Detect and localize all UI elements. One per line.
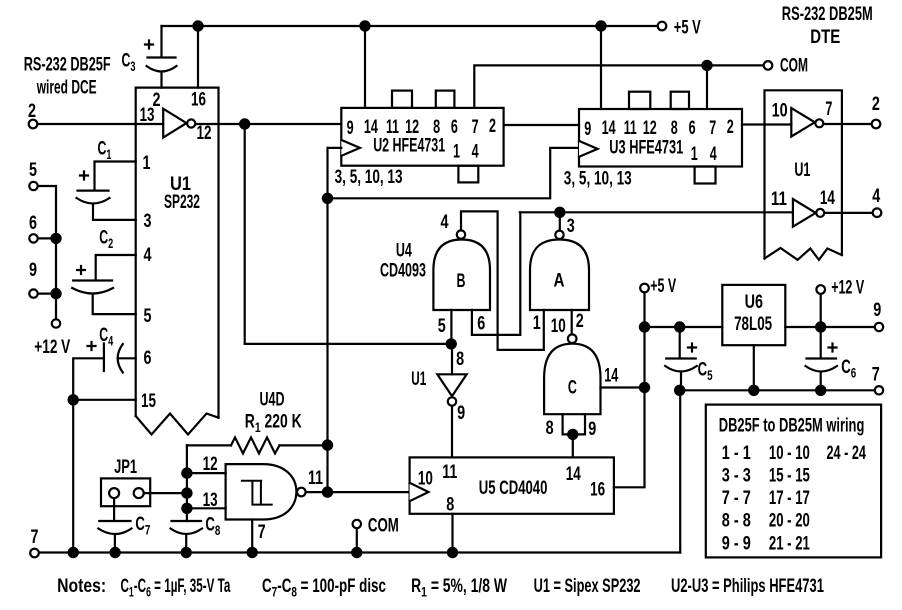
svg-text:9: 9 xyxy=(584,118,591,139)
capacitor C5 xyxy=(665,327,697,390)
wire terminal5 jog xyxy=(38,186,56,319)
svg-text:14: 14 xyxy=(604,365,618,386)
node junction out/feedback xyxy=(323,488,332,497)
op-amp U1 SP232 box (torn bottom) xyxy=(136,88,219,418)
svg-text:U1: U1 xyxy=(170,173,191,194)
svg-text:U4D: U4D xyxy=(260,389,285,410)
op-amp U1 inverter 11-14 xyxy=(793,199,816,227)
svg-text:7: 7 xyxy=(872,364,880,385)
svg-text:12: 12 xyxy=(197,123,212,144)
node junction C5 top xyxy=(675,322,684,331)
svg-text:16: 16 xyxy=(590,479,605,500)
wire U2 clock jog xyxy=(328,148,342,198)
node junction C3/pin16 riser xyxy=(193,21,202,30)
svg-text:C3: C3 xyxy=(122,51,136,74)
svg-text:7: 7 xyxy=(709,117,716,138)
capacitor C6 xyxy=(806,327,838,390)
svg-text:13: 13 xyxy=(203,490,218,511)
node junction +5V rail xyxy=(640,322,649,331)
svg-text:5: 5 xyxy=(144,305,152,326)
node terminal 6 xyxy=(29,234,37,242)
wire top +5V bus xyxy=(162,25,658,27)
op-amp U1 right box (torn bottom) xyxy=(765,90,842,258)
wire bottom ground bus xyxy=(40,551,680,553)
node +5V terminal top xyxy=(658,22,667,31)
wire inverter14 out to terminal 4 xyxy=(825,212,873,214)
svg-text:C7​-C8​ = 100-pF disc: C7​-C8​ = 100-pF disc xyxy=(262,576,386,600)
svg-text:14: 14 xyxy=(602,117,616,138)
node terminal 9 right xyxy=(875,323,883,331)
node terminal 7 bottom left xyxy=(30,549,39,558)
wire U6 gnd pin xyxy=(753,345,755,390)
wire U6 out to +12V/terminal9 xyxy=(785,326,874,328)
wire A output drop xyxy=(559,212,561,230)
jumper JP1 xyxy=(101,478,150,506)
node +5V terminal right xyxy=(640,284,649,293)
node terminal 5 xyxy=(29,182,37,190)
op-amp U1 inverter 10-7 xyxy=(791,108,815,136)
node terminal 4 right xyxy=(873,208,882,217)
wire R1 left drop xyxy=(186,445,188,521)
svg-text:SP232: SP232 xyxy=(164,192,200,212)
svg-text:RS-232 DB25F: RS-232 DB25F xyxy=(24,54,111,75)
svg-text:C8: C8 xyxy=(205,514,220,538)
node junction VDD/C14 xyxy=(640,383,649,392)
svg-text:6: 6 xyxy=(144,347,152,368)
svg-text:10: 10 xyxy=(551,316,566,337)
wire terminal9 stub xyxy=(38,293,56,295)
node junction U2 pin14 riser xyxy=(360,21,369,30)
svg-text:1: 1 xyxy=(533,312,541,333)
svg-text:8 - 8: 8 - 8 xyxy=(722,510,751,531)
svg-text:C1​-C6​ = 1µF, 35-V Ta: C1​-C6​ = 1µF, 35-V Ta xyxy=(121,576,231,600)
svg-text:16: 16 xyxy=(191,89,206,110)
node junction 3,5,10,13 bus xyxy=(323,194,332,203)
svg-text:C5: C5 xyxy=(698,359,713,383)
svg-text:17 - 17: 17 - 17 xyxy=(769,488,810,509)
svg-text:21 - 21: 21 - 21 xyxy=(769,533,810,554)
svg-text:3 - 3: 3 - 3 xyxy=(722,465,751,486)
svg-text:10 - 10: 10 - 10 xyxy=(769,443,810,464)
svg-text:RS-232 DB25M: RS-232 DB25M xyxy=(782,4,873,25)
node junction pin12 xyxy=(182,469,191,478)
svg-text:4: 4 xyxy=(710,143,717,164)
node terminal 7 right xyxy=(875,386,883,394)
svg-text:DB25F to DB25M wiring: DB25F to DB25M wiring xyxy=(719,415,865,436)
svg-text:7: 7 xyxy=(258,521,266,542)
node junction pin13 xyxy=(182,504,191,513)
wire U1 pin12 out to U2 pin9 xyxy=(196,123,342,125)
svg-text:9: 9 xyxy=(588,418,596,439)
capacitor C2 xyxy=(72,255,136,314)
node junction U3 pin7 riser xyxy=(702,61,711,70)
wire ground riser right xyxy=(679,390,681,552)
gate U4A CD4093 xyxy=(530,240,589,311)
capacitor C1 xyxy=(77,162,136,220)
svg-text:U5 CD4040: U5 CD4040 xyxy=(479,478,548,499)
svg-text:9: 9 xyxy=(873,299,881,320)
capacitor C4 xyxy=(73,342,136,400)
wire branch down to osc line xyxy=(245,124,452,344)
svg-text:78L05: 78L05 xyxy=(734,314,772,335)
capacitor C8 xyxy=(171,521,203,553)
node junction bus U4D pin7 xyxy=(248,548,257,557)
node junction pin15/C4 xyxy=(69,395,78,404)
counter U5 CD4040 box xyxy=(410,457,614,513)
buffer U2 HFE4731 box xyxy=(341,108,503,166)
svg-text:12: 12 xyxy=(203,454,218,475)
svg-text:U1 = Sipex SP232: U1 = Sipex SP232 xyxy=(534,576,641,597)
svg-text:20 - 20: 20 - 20 xyxy=(769,510,810,531)
wire inverter7 out to terminal 2 xyxy=(824,123,871,125)
buffer U3 HFE4731 box xyxy=(579,109,742,167)
svg-text:U2 HFE4731: U2 HFE4731 xyxy=(373,135,445,156)
svg-text:2: 2 xyxy=(489,115,496,136)
table DB25F to DB25M wiring box xyxy=(706,405,881,558)
wire U4 pin14 VDD xyxy=(601,386,645,388)
svg-text:24 - 24: 24 - 24 xyxy=(827,443,866,464)
op-amp U1 inverter 13-12 xyxy=(163,109,186,138)
schmitt hysteresis symbol xyxy=(242,481,272,505)
svg-text:1: 1 xyxy=(691,143,698,164)
wire B pin5 xyxy=(450,310,452,344)
node junction +12V xyxy=(816,322,825,331)
gate U4C CD4093 xyxy=(544,344,600,415)
wire long vertical osc feedback xyxy=(326,198,328,492)
svg-text:7 - 7: 7 - 7 xyxy=(722,487,751,508)
svg-text:9: 9 xyxy=(457,402,465,423)
wire U4D out 11 to U5 clock xyxy=(306,491,410,493)
node junction t6 xyxy=(51,234,60,243)
svg-text:U4: U4 xyxy=(396,240,412,261)
svg-text:11: 11 xyxy=(442,461,457,483)
svg-text:1: 1 xyxy=(453,141,460,162)
node junction pin12 branch xyxy=(240,119,249,128)
svg-text:14: 14 xyxy=(820,188,836,209)
svg-text:11: 11 xyxy=(624,119,637,139)
wire net to inverter 11 xyxy=(520,211,793,213)
svg-text:2: 2 xyxy=(872,93,880,114)
pin U5 clock triangle xyxy=(410,483,429,502)
svg-text:5: 5 xyxy=(29,159,37,180)
node junction R1 right xyxy=(323,441,332,450)
svg-text:15: 15 xyxy=(141,391,156,412)
svg-text:U1: U1 xyxy=(794,159,810,180)
node junction U6 gnd xyxy=(749,386,758,395)
svg-text:COM: COM xyxy=(368,515,399,536)
svg-text:3, 5, 10, 13: 3, 5, 10, 13 xyxy=(564,168,632,189)
wire COM line xyxy=(474,65,763,108)
wire COM drop xyxy=(356,529,358,553)
node junction bus x73 xyxy=(69,548,78,557)
svg-text:wired DCE: wired DCE xyxy=(36,78,97,98)
svg-text:11: 11 xyxy=(771,187,787,209)
svg-text:C4: C4 xyxy=(99,326,113,349)
svg-text:12: 12 xyxy=(643,117,657,138)
wire +5V to U6 xyxy=(645,326,723,328)
wire A pin2 to C out xyxy=(571,310,573,334)
capacitor C7 xyxy=(98,499,131,553)
svg-text:6: 6 xyxy=(451,116,458,137)
svg-text:10: 10 xyxy=(418,468,433,489)
svg-text:U1: U1 xyxy=(411,369,426,389)
svg-text:B: B xyxy=(457,270,466,291)
svg-text:9 - 9: 9 - 9 xyxy=(722,533,751,554)
svg-text:C: C xyxy=(568,377,577,398)
wire U4D pin7 xyxy=(251,520,253,553)
svg-text:4: 4 xyxy=(144,244,153,265)
wire terminal2 to U1 pin13 xyxy=(38,123,163,125)
svg-text:9: 9 xyxy=(29,259,37,280)
svg-text:9: 9 xyxy=(347,117,354,138)
svg-text:1: 1 xyxy=(143,152,151,173)
svg-text:11: 11 xyxy=(308,467,323,489)
wire U4D pin12 xyxy=(187,472,226,474)
node terminal 2 left xyxy=(29,120,38,129)
wire C pins 8,9 loop xyxy=(563,414,585,434)
svg-text:2: 2 xyxy=(576,310,584,331)
wire 3,5,10,13 bus to U3 xyxy=(328,148,580,198)
svg-text:1 - 1: 1 - 1 xyxy=(722,442,751,463)
node junction JP1 xyxy=(182,489,191,498)
svg-text:6: 6 xyxy=(29,212,37,233)
wire JP1 to C8 node xyxy=(145,492,187,494)
svg-text:+5 V: +5 V xyxy=(650,275,676,296)
pin U3 clock triangle xyxy=(579,141,598,157)
wire U4D pin13 xyxy=(187,507,226,509)
svg-text:8: 8 xyxy=(546,417,554,438)
svg-text:C2: C2 xyxy=(99,228,113,251)
wire +12V drop xyxy=(820,295,822,328)
svg-text:R1​ 220 K: R1​ 220 K xyxy=(245,410,302,435)
svg-text:4: 4 xyxy=(872,185,881,206)
node terminal 2 right xyxy=(872,120,881,129)
wire C 8/9 to U5 pin14 xyxy=(572,434,574,457)
svg-text:R1​ = 5%, 1/8 W: R1​ = 5%, 1/8 W xyxy=(411,575,507,600)
wire U3 pin2 out xyxy=(742,123,791,125)
node junction U3 pin14 riser xyxy=(596,21,605,30)
op-amp U1 inverter 8-9 middle xyxy=(451,344,453,374)
node terminal 9 xyxy=(29,289,37,297)
svg-text:+5 V: +5 V xyxy=(674,17,701,38)
svg-text:6: 6 xyxy=(477,313,485,334)
wire U3 pin7 riser xyxy=(706,65,708,109)
node junction osc/B5 xyxy=(447,339,456,348)
node junction gate A out xyxy=(555,208,564,217)
svg-text:+12 V: +12 V xyxy=(34,336,70,358)
node junction 8/9 xyxy=(568,430,577,439)
wire ground bus right xyxy=(680,389,875,391)
wire U5 pin8 xyxy=(451,514,453,553)
regulator U6 78L05 box xyxy=(722,285,785,345)
svg-text:U2-U3 = Philips HFE4731: U2-U3 = Philips HFE4731 xyxy=(671,576,824,597)
svg-text:7: 7 xyxy=(825,98,832,119)
wire U5 pin16 xyxy=(614,293,645,487)
svg-text:3, 5, 10, 13: 3, 5, 10, 13 xyxy=(335,167,403,188)
svg-text:2: 2 xyxy=(28,100,36,121)
svg-text:A: A xyxy=(554,269,565,291)
svg-text:+12 V: +12 V xyxy=(831,277,864,298)
svg-text:5: 5 xyxy=(438,315,446,336)
wire U2 pin14 riser xyxy=(364,26,366,108)
node junction t9 xyxy=(51,289,60,298)
gate U4D schmitt NAND xyxy=(226,464,297,519)
svg-text:U3 HFE4731: U3 HFE4731 xyxy=(609,137,683,158)
svg-text:JP1: JP1 xyxy=(114,457,137,478)
svg-text:6: 6 xyxy=(689,117,696,138)
wire left ground drop xyxy=(72,400,74,553)
node junction C5 bottom xyxy=(675,386,684,395)
svg-text:3: 3 xyxy=(144,210,152,231)
node COM terminal top xyxy=(764,61,773,70)
wire U1 pin15 stub xyxy=(73,399,136,401)
svg-text:DTE: DTE xyxy=(810,26,840,47)
gate U4B CD4093 xyxy=(433,240,490,311)
svg-text:8: 8 xyxy=(446,494,454,515)
svg-text:8: 8 xyxy=(456,348,464,369)
wire inverter9 to U5 pin11 xyxy=(451,406,453,457)
svg-text:13: 13 xyxy=(140,105,155,126)
wire pin16 riser xyxy=(197,26,199,88)
svg-text:8: 8 xyxy=(671,117,678,138)
svg-text:7: 7 xyxy=(472,116,479,137)
node +12V feed terminal xyxy=(52,319,60,327)
wire U2 pin2 to U3 pin9 xyxy=(504,124,579,126)
svg-text:C1: C1 xyxy=(98,139,112,162)
svg-text:15 - 15: 15 - 15 xyxy=(769,465,810,486)
resistor R1 220K xyxy=(187,437,328,453)
svg-text:Notes:: Notes: xyxy=(57,575,106,597)
node junction bus U5 pin8 xyxy=(448,548,457,557)
capacitor C3 xyxy=(145,26,177,88)
svg-text:14: 14 xyxy=(566,464,582,485)
svg-text:C7: C7 xyxy=(135,514,150,538)
node junction bus C7 xyxy=(111,548,120,557)
pin U2 clock triangle xyxy=(341,140,360,156)
wire terminal6 stub xyxy=(38,237,56,239)
wire B out (4) to A in (1) xyxy=(461,211,544,350)
node junction bus C8 xyxy=(182,548,191,557)
svg-text:C6: C6 xyxy=(841,357,856,381)
svg-text:4: 4 xyxy=(472,141,479,162)
svg-text:CD4093: CD4093 xyxy=(380,260,426,281)
node COM terminal bottom xyxy=(353,520,361,528)
node junction C6 bottom xyxy=(816,386,825,395)
svg-text:2: 2 xyxy=(727,116,734,137)
svg-text:COM: COM xyxy=(780,56,808,76)
wire B pin6 to net xyxy=(472,212,520,335)
wire U3 pin14 riser xyxy=(600,26,602,109)
node junction bus COM xyxy=(352,548,361,557)
svg-text:10: 10 xyxy=(772,100,788,121)
node +12V terminal right xyxy=(816,285,825,294)
svg-text:4: 4 xyxy=(441,211,450,232)
svg-text:7: 7 xyxy=(31,526,39,547)
svg-text:U6: U6 xyxy=(745,291,763,312)
svg-text:3: 3 xyxy=(567,215,575,236)
